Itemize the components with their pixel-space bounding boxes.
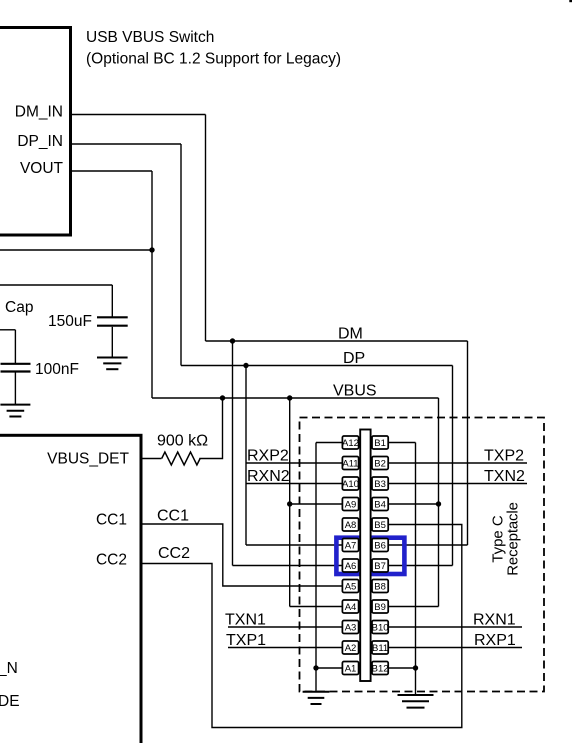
highlight box (blue) around A7/A6/B6/B7 <box>336 538 404 574</box>
capacitor C2 100nF <box>1 364 31 372</box>
svg-text:B1: B1 <box>374 438 386 449</box>
svg-text:VBUS_DET: VBUS_DET <box>47 451 129 468</box>
wire VBUS right vertical B4/B9 <box>438 398 440 607</box>
pin A8 box <box>342 518 358 531</box>
pin A11 box <box>342 457 358 470</box>
wire VBUS left vertical A9/A4 <box>289 398 291 607</box>
pin B5 box <box>372 518 388 531</box>
wire resistor to VBUS vertical <box>199 398 222 459</box>
svg-text:DE: DE <box>0 693 20 710</box>
svg-text:B5: B5 <box>374 520 386 531</box>
wire DP right vertical down to B7 <box>452 366 454 566</box>
pin A2 box <box>342 641 358 654</box>
svg-text:CC1: CC1 <box>157 508 189 525</box>
wire DP horizontal net <box>181 365 453 367</box>
wire gnd rail left vertical <box>315 443 317 692</box>
ground left under receptacle <box>303 692 330 704</box>
svg-text:USB VBUS Switch: USB VBUS Switch <box>86 29 214 46</box>
wire DM left branch down to A6 <box>232 341 234 566</box>
wire RXP2 stub to A11 <box>246 462 342 464</box>
node VBUS left branch <box>287 395 292 400</box>
pin A5 box <box>342 580 358 593</box>
node junction VOUT/left stub <box>149 247 154 252</box>
pin A3 box <box>342 621 358 634</box>
pin B12 box <box>372 662 389 675</box>
pin A12 box <box>342 436 359 449</box>
svg-text:A7: A7 <box>345 540 357 551</box>
wire cap net top horizontal <box>0 284 112 286</box>
wire A9 from VBUS rail <box>290 503 342 505</box>
svg-text:VOUT: VOUT <box>20 160 64 177</box>
wire C1 to ground <box>111 327 113 358</box>
wire DP_IN horizontal from U1 <box>71 143 182 145</box>
dashed receptacle boundary <box>300 418 545 692</box>
artifact mark top-right corner <box>569 0 572 2</box>
svg-text:B2: B2 <box>374 458 386 469</box>
wire B3 to TXN2 <box>389 483 527 485</box>
wire TXP1 stub to A2 <box>228 647 342 649</box>
IC U1 USB VBUS switch box <box>0 28 71 236</box>
wire A7 from DP branch <box>246 544 342 546</box>
svg-text:B11: B11 <box>372 643 388 654</box>
node DP branch A7 <box>243 363 248 368</box>
svg-text:TXP1: TXP1 <box>226 632 266 649</box>
svg-text:A1: A1 <box>345 663 357 674</box>
pin A9 box <box>342 498 358 511</box>
svg-text:Cap: Cap <box>5 299 33 316</box>
wire VBUS stub from left edge <box>0 249 152 251</box>
svg-text:DM: DM <box>338 326 363 343</box>
wire down to C2 <box>14 330 16 364</box>
connector center bar <box>360 430 370 682</box>
pin B8 box <box>372 580 388 593</box>
capacitor C1 150uF <box>97 317 128 325</box>
svg-text:DM_IN: DM_IN <box>15 104 63 121</box>
wire A1 to gnd rail <box>316 667 342 669</box>
svg-text:A12: A12 <box>342 438 359 449</box>
wire VBUS_DET to resistor <box>141 458 162 460</box>
svg-text:B10: B10 <box>372 622 389 633</box>
svg-text:A8: A8 <box>345 520 357 531</box>
pin A10 box <box>342 477 359 490</box>
IC U2 USB controller box <box>0 435 141 743</box>
pin B7 box <box>372 559 388 572</box>
node gnd right at B12 <box>413 665 418 670</box>
svg-text:A9: A9 <box>345 499 357 510</box>
wire VOUT/VBUS vertical down <box>151 171 153 398</box>
pin B6 box <box>372 539 388 552</box>
svg-text:150uF: 150uF <box>48 313 92 330</box>
wire CC1 from U2 <box>141 524 342 586</box>
svg-text:B4: B4 <box>374 499 386 510</box>
svg-text:TXN2: TXN2 <box>484 468 525 485</box>
ground under C2 <box>0 405 30 417</box>
svg-text:900 kΩ: 900 kΩ <box>157 433 208 450</box>
wire A4 from VBUS rail <box>290 606 342 608</box>
pin B10 box <box>372 621 389 634</box>
svg-text:A2: A2 <box>345 643 357 654</box>
svg-text:100nF: 100nF <box>35 361 79 378</box>
wire CC2 from U2 around bottom to B5 <box>141 525 462 728</box>
svg-text:_N: _N <box>0 660 18 677</box>
wire DP_IN vertical down <box>180 144 182 366</box>
pin B1 box <box>372 436 388 449</box>
wire B1 to gnd rail <box>389 442 416 444</box>
wire DM horizontal net <box>206 340 468 342</box>
svg-text:CC1: CC1 <box>96 512 127 529</box>
pin B11 box <box>372 641 388 654</box>
svg-text:B9: B9 <box>374 602 386 613</box>
wire DM_IN vertical down <box>205 115 207 342</box>
svg-text:RXN1: RXN1 <box>473 612 516 629</box>
svg-text:B12: B12 <box>372 663 389 674</box>
ground under C1 <box>97 358 128 370</box>
wire TXN1 stub to A3 <box>228 626 342 628</box>
svg-text:B3: B3 <box>374 479 386 490</box>
pin B4 box <box>372 498 388 511</box>
wire C2 to ground <box>14 373 16 405</box>
svg-text:A10: A10 <box>342 479 359 490</box>
svg-text:A5: A5 <box>345 581 357 592</box>
svg-text:RXN2: RXN2 <box>247 468 290 485</box>
svg-text:A11: A11 <box>342 458 358 469</box>
svg-text:DP_IN: DP_IN <box>17 133 63 150</box>
pin A4 box <box>342 600 358 613</box>
wire VOUT horizontal from U1 <box>71 170 153 172</box>
svg-text:RXP2: RXP2 <box>247 448 289 465</box>
wire B9 to VBUS rail <box>389 606 439 608</box>
svg-text:B6: B6 <box>374 540 386 551</box>
svg-text:Receptacle: Receptacle <box>504 502 521 576</box>
svg-text:B7: B7 <box>374 561 386 572</box>
svg-text:TXP2: TXP2 <box>484 448 524 465</box>
pin B3 box <box>372 477 388 490</box>
pin B2 box <box>372 457 388 470</box>
pin B9 box <box>372 600 388 613</box>
wire B10 to RXN1 <box>389 626 522 628</box>
wire B7 to DP right <box>389 565 453 567</box>
node VBUS at B4 <box>436 501 441 506</box>
pin A7 box <box>342 539 358 552</box>
svg-text:DP: DP <box>343 350 365 367</box>
svg-text:CC2: CC2 <box>96 552 127 569</box>
svg-text:TXN1: TXN1 <box>225 612 266 629</box>
svg-text:B8: B8 <box>374 581 386 592</box>
wire DM_IN horizontal from U1 <box>71 114 206 116</box>
wire B2 to TXP2 <box>389 462 527 464</box>
ground right under receptacle <box>398 695 434 708</box>
svg-text:CC2: CC2 <box>158 545 190 562</box>
node VBUS resistor junction <box>220 395 225 400</box>
node DM branch A6 <box>230 338 235 343</box>
wire 100nF net stub from left <box>0 329 15 331</box>
wire DM right vertical down to B6 <box>467 341 469 545</box>
wire VBUS horizontal net <box>152 397 439 399</box>
svg-text:(Optional BC 1.2 Support for L: (Optional BC 1.2 Support for Legacy) <box>86 50 341 67</box>
svg-text:A6: A6 <box>345 561 357 572</box>
wire DP left branch down to A7 <box>245 366 247 546</box>
wire RXN2 stub to A10 <box>246 483 342 485</box>
wire B6 to DM right <box>389 544 468 546</box>
svg-text:A4: A4 <box>345 602 357 613</box>
wire cap net vertical to C1 <box>111 285 113 317</box>
resistor R1 900 kOhm <box>162 452 200 465</box>
svg-text:A3: A3 <box>345 622 357 633</box>
svg-text:VBUS: VBUS <box>333 383 377 400</box>
wire gnd rail right vertical <box>415 443 417 696</box>
wire B12 to gnd rail <box>389 667 416 669</box>
wire B11 to RXP1 <box>389 647 522 649</box>
svg-text:RXP1: RXP1 <box>474 632 516 649</box>
wire A6 from DM branch <box>233 565 343 567</box>
wire A12 to gnd rail <box>316 442 342 444</box>
node gnd left at A1 <box>313 665 318 670</box>
node VBUS at A9 <box>287 501 292 506</box>
pin A6 box <box>342 559 358 572</box>
wire B4 to VBUS rail <box>389 503 439 505</box>
pin A1 box <box>342 662 358 675</box>
